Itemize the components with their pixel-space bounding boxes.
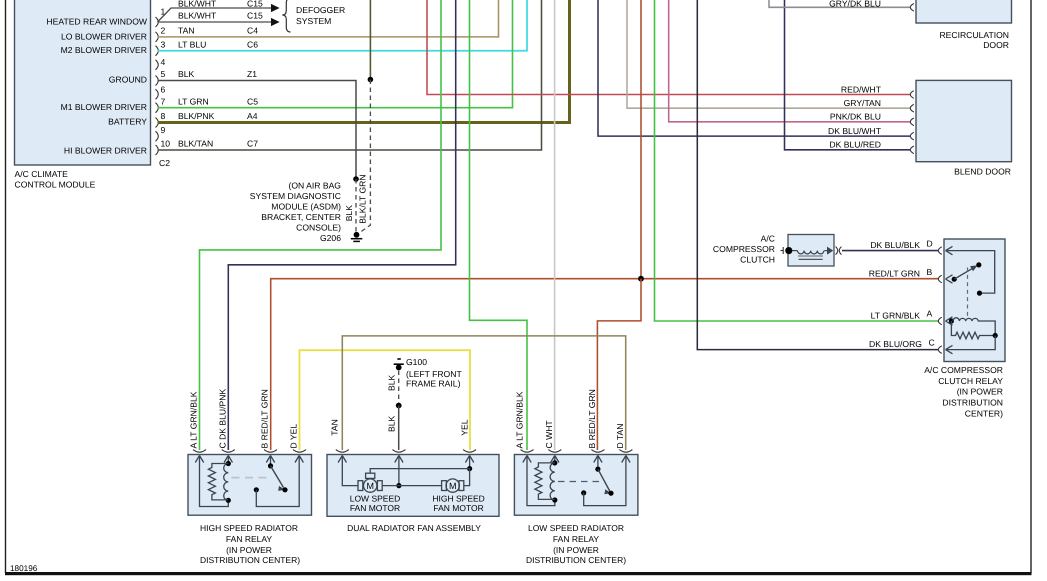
svg-text:LOW SPEED RADIATOR: LOW SPEED RADIATOR	[528, 523, 624, 533]
high speed radiator fan relay box	[188, 455, 312, 516]
svg-text:SYSTEM DIAGNOSTIC: SYSTEM DIAGNOSTIC	[250, 191, 341, 201]
svg-text:D TAN: D TAN	[615, 424, 625, 449]
svg-text:CLUTCH RELAY: CLUTCH RELAY	[938, 376, 1003, 386]
svg-text:A4: A4	[247, 111, 258, 121]
G206 location label	[250, 181, 342, 243]
svg-text:M1 BLOWER DRIVER: M1 BLOWER DRIVER	[61, 102, 147, 112]
low relay actuator dashed	[558, 481, 599, 483]
svg-text:BLK: BLK	[386, 415, 396, 432]
svg-text:BLK: BLK	[344, 205, 354, 222]
relay actuator dashed link	[967, 268, 969, 319]
rotated pin labels low speed relay	[514, 389, 625, 448]
svg-text:8: 8	[161, 111, 166, 121]
A/C compressor clutch label	[713, 233, 775, 264]
high relay switch blade	[271, 466, 284, 488]
high relay pin arrows	[195, 456, 303, 463]
svg-text:GRY/DK BLU: GRY/DK BLU	[829, 0, 881, 8]
low relay switch blade	[598, 469, 610, 491]
switch blade tip dot	[976, 262, 981, 267]
svg-text:M2 BLOWER DRIVER: M2 BLOWER DRIVER	[61, 45, 147, 55]
wire LT GRN C5 (pin7, up offscreen)	[158, 0, 513, 108]
junction dot RED/LT GRN	[638, 276, 644, 282]
rotated pin labels high speed relay	[189, 389, 299, 449]
low relay pin arrows	[523, 456, 630, 463]
svg-text:BLK/PNK: BLK/PNK	[178, 111, 215, 121]
recirc pin arc	[910, 4, 914, 12]
wire DK BLU/RED (to blend door)	[785, 0, 911, 150]
svg-text:TAN: TAN	[329, 419, 339, 436]
dual fan pin arrows	[338, 456, 474, 463]
svg-text:DK BLU/ORG: DK BLU/ORG	[869, 339, 922, 349]
svg-text:HEATED REAR WINDOW: HEATED REAR WINDOW	[46, 17, 147, 27]
relay coil	[953, 318, 995, 336]
frame bottom bar	[5, 572, 1032, 575]
wire DK BLU/PNK to high speed relay C	[228, 0, 455, 450]
svg-text:B RED/LT GRN: B RED/LT GRN	[587, 389, 597, 448]
high relay caption	[200, 523, 300, 565]
svg-text:BLEND DOOR: BLEND DOOR	[954, 167, 1011, 177]
dual fan pin arcs	[336, 450, 476, 453]
svg-text:C DK BLU/PNK: C DK BLU/PNK	[217, 389, 227, 449]
wire BLK/WHT pin1 upper (to defogger)	[158, 8, 272, 22]
module pin arcs 1-10	[156, 17, 159, 155]
svg-text:BATTERY: BATTERY	[108, 117, 147, 127]
svg-text:2: 2	[161, 26, 166, 36]
low speed radiator fan relay box	[514, 455, 638, 516]
svg-text:C15: C15	[247, 11, 263, 21]
low relay fixed contact to pin D	[584, 456, 626, 506]
svg-text:C2: C2	[159, 158, 170, 168]
svg-text:FAN MOTOR: FAN MOTOR	[350, 503, 400, 513]
relay pin D arrow and wire to fixed contact	[946, 246, 995, 293]
low speed fan motor	[358, 473, 382, 492]
hidden BLK wire (dashed) from G100	[398, 371, 400, 406]
svg-text:CLUTCH: CLUTCH	[740, 254, 775, 264]
low relay coil top dot	[552, 460, 557, 465]
svg-text:(LEFT FRONT: (LEFT FRONT	[406, 369, 462, 379]
svg-text:C: C	[929, 337, 935, 347]
low relay pin arcs	[521, 450, 633, 453]
high speed fan motor	[442, 479, 464, 492]
resistor junction dot	[993, 333, 998, 338]
blade arrowhead	[278, 486, 285, 491]
svg-text:A LT GRN/BLK: A LT GRN/BLK	[514, 391, 524, 448]
hidden BLK/LT GRN wire (dashed) to G206	[359, 80, 371, 234]
pin B arrow	[946, 275, 953, 283]
svg-text:4: 4	[161, 57, 166, 67]
module caption	[15, 169, 96, 190]
wire PNK/DK BLU (to blend door)	[669, 0, 910, 122]
svg-text:3: 3	[161, 39, 166, 49]
low relay resistor (parallel)	[535, 463, 555, 500]
recirculation door box	[916, 0, 1012, 23]
wire TAN C4 (pin2, up offscreen)	[158, 0, 499, 37]
svg-text:BRACKET, CENTER: BRACKET, CENTER	[261, 212, 341, 222]
svg-text:DISTRIBUTION CENTER): DISTRIBUTION CENTER)	[526, 555, 626, 565]
svg-text:5: 5	[161, 69, 166, 79]
clutch coil	[785, 247, 828, 254]
svg-text:6: 6	[161, 85, 166, 95]
svg-text:MODULE (ASDM): MODULE (ASDM)	[271, 202, 341, 212]
svg-text:TAN: TAN	[178, 26, 195, 36]
frame left border	[5, 0, 7, 573]
svg-text:180196: 180196	[10, 564, 38, 573]
svg-text:G206: G206	[320, 233, 341, 243]
svg-text:DOOR: DOOR	[983, 40, 1009, 50]
high relay switch pivot stem	[270, 456, 272, 466]
svg-text:GROUND: GROUND	[109, 75, 147, 85]
junction dot ASDM	[368, 77, 374, 83]
defogger system label	[296, 5, 345, 26]
svg-text:7: 7	[161, 96, 166, 106]
svg-text:A/C COMPRESSOR: A/C COMPRESSOR	[924, 365, 1003, 375]
svg-text:BLK/LT GRN: BLK/LT GRN	[357, 174, 367, 223]
wire WHT to low speed relay C	[554, 0, 556, 450]
wire GRY/TAN (to blend door)	[627, 0, 910, 108]
svg-text:DISTRIBUTION: DISTRIBUTION	[942, 398, 1003, 408]
high relay fixed contact to pin D	[256, 456, 299, 507]
YEL junction dot	[467, 466, 472, 471]
svg-text:D: D	[927, 238, 933, 248]
svg-text:BLK: BLK	[178, 69, 195, 79]
BLK junction dot	[396, 483, 401, 488]
svg-text:B: B	[927, 267, 933, 277]
svg-text:BLK/WHT: BLK/WHT	[178, 11, 217, 21]
wire DK GRN from top to ASDM junction	[369, 0, 371, 80]
svg-text:FAN RELAY: FAN RELAY	[226, 534, 272, 544]
wire BLK/TAN C7 (pin10, up offscreen)	[158, 0, 542, 150]
A/C compressor clutch relay box	[944, 239, 1005, 362]
svg-text:(IN POWER: (IN POWER	[226, 545, 272, 555]
junction dot G100 wire	[396, 403, 402, 409]
svg-text:LT BLU: LT BLU	[178, 39, 206, 49]
wire LT BLU C6 (pin3, up offscreen)	[158, 0, 528, 51]
frame right border	[1030, 0, 1032, 573]
svg-text:PNK/DK BLU: PNK/DK BLU	[830, 112, 881, 122]
svg-text:A: A	[927, 309, 933, 319]
svg-text:DUAL RADIATOR FAN ASSEMBLY: DUAL RADIATOR FAN ASSEMBLY	[347, 523, 481, 533]
relay resistor	[951, 321, 995, 339]
svg-text:CENTER): CENTER)	[965, 409, 1003, 419]
junction dot on BLK at G206 drop	[353, 176, 359, 182]
wire BLK to dual fan assembly	[398, 406, 400, 451]
high relay fixed contact dot	[254, 487, 259, 492]
svg-text:BLK/TAN: BLK/TAN	[178, 139, 213, 149]
clutch core bars	[798, 255, 823, 257]
svg-text:LT GRN/BLK: LT GRN/BLK	[871, 310, 921, 320]
high relay pin C stem	[227, 456, 229, 464]
pin A arrow	[946, 317, 953, 325]
wire LT GRN/BLK to clutch relay A	[655, 0, 939, 321]
svg-text:(ON AIR BAG: (ON AIR BAG	[288, 181, 341, 191]
pin A junction dot	[949, 318, 954, 323]
svg-text:FAN RELAY: FAN RELAY	[553, 534, 599, 544]
switch pivot dot B	[952, 277, 957, 282]
pin C arrow	[946, 345, 953, 353]
clutch relay pin letters	[927, 238, 935, 347]
svg-text:HI BLOWER DRIVER: HI BLOWER DRIVER	[64, 146, 147, 156]
hidden BLK wire (dashed) to G206	[355, 179, 357, 232]
wire to pin C inside relay	[946, 336, 996, 350]
low relay switch pivot dot	[595, 467, 600, 472]
wire BLK/WHT pin1 lower (to defogger)	[158, 21, 272, 23]
svg-text:CONSOLE): CONSOLE)	[296, 223, 341, 233]
svg-text:BLK/WHT: BLK/WHT	[178, 0, 217, 9]
switch blade	[954, 266, 976, 279]
svg-text:DK BLU/WHT: DK BLU/WHT	[828, 126, 882, 136]
svg-text:LT GRN: LT GRN	[178, 96, 209, 106]
high relay resistor (parallel)	[208, 464, 228, 500]
fixed contact dot (to D)	[977, 291, 982, 296]
svg-text:10: 10	[161, 139, 171, 149]
low relay pin C stem	[554, 456, 556, 463]
wire RED/LT GRN riser from top	[640, 0, 642, 279]
high relay coil bottom dot	[226, 498, 231, 503]
blend door pin arcs	[910, 91, 914, 154]
svg-text:M: M	[366, 481, 374, 491]
svg-text:DK BLU/RED: DK BLU/RED	[829, 140, 881, 150]
blend door wire labels	[828, 84, 882, 149]
wire YEL (high relay D to dual fan)	[300, 350, 471, 450]
svg-text:DEFOGGER: DEFOGGER	[296, 5, 345, 15]
wire GRY/DK BLU (to recirculation door)	[769, 0, 910, 7]
svg-text:DK BLU/BLK: DK BLU/BLK	[870, 240, 920, 250]
low relay coil	[550, 463, 555, 500]
motor labels	[350, 494, 485, 514]
wire LT GRN/BLK to high speed relay A	[200, 0, 442, 450]
wire TAN (dual fan to low relay D)	[342, 336, 625, 450]
svg-text:RED/WHT: RED/WHT	[841, 84, 882, 94]
A/C compressor clutch box	[788, 235, 834, 267]
clutch relay caption	[924, 365, 1003, 419]
arrow to defogger upper	[271, 4, 280, 12]
wire BLK/PNK A4 battery (pin8, up offscreen)	[158, 0, 570, 123]
svg-text:C6: C6	[247, 39, 258, 49]
svg-text:CONTROL MODULE: CONTROL MODULE	[15, 179, 96, 189]
ground G206	[351, 232, 363, 241]
wire DK BLU/BLK (clutch to relay D)	[842, 250, 939, 252]
svg-text:DISTRIBUTION CENTER): DISTRIBUTION CENTER)	[200, 555, 300, 565]
svg-text:A/C CLIMATE: A/C CLIMATE	[15, 169, 69, 179]
svg-text:M: M	[449, 481, 457, 491]
svg-text:HIGH SPEED RADIATOR: HIGH SPEED RADIATOR	[200, 523, 298, 533]
high relay coil top dot	[226, 461, 231, 466]
BLK pin wire	[398, 456, 400, 486]
svg-text:FRAME RAIL): FRAME RAIL)	[406, 379, 461, 389]
wire DK BLU/ORG to clutch relay C	[697, 0, 938, 350]
svg-text:COMPRESSOR: COMPRESSOR	[713, 244, 775, 254]
svg-text:C7: C7	[247, 139, 258, 149]
high relay pin arcs	[193, 450, 306, 453]
module circuit codes	[247, 0, 263, 149]
G100 label	[406, 357, 462, 388]
wire BLK Z1 (pin5 ground to G206)	[158, 81, 357, 180]
svg-text:(IN POWER: (IN POWER	[957, 387, 1003, 397]
low blade tip dot	[608, 491, 613, 496]
svg-text:RECIRCULATION: RECIRCULATION	[939, 30, 1009, 40]
low relay switch pivot stem	[597, 456, 599, 470]
low relay pin A path to coil bottom	[527, 456, 555, 506]
svg-text:C4: C4	[247, 26, 258, 36]
defogger brace	[282, 0, 290, 32]
module pin name labels	[46, 17, 147, 156]
svg-text:9: 9	[161, 125, 166, 135]
low relay coil bottom dot	[552, 497, 557, 502]
arrow to defogger lower	[271, 18, 280, 26]
high relay coil	[224, 464, 229, 501]
high relay pin A path to coil bottom	[200, 456, 229, 507]
clutch coil arrow	[827, 247, 833, 255]
wire RED/LT GRN net (clutch relay B to both fan relays)	[271, 279, 939, 450]
svg-text:GRY/TAN: GRY/TAN	[844, 98, 881, 108]
low relay caption	[526, 523, 626, 565]
low relay fixed contact dot	[581, 490, 586, 495]
blend door box	[916, 80, 1012, 161]
dual radiator fan assembly box	[327, 455, 499, 517]
module pin numbers	[161, 7, 171, 149]
ground G100	[394, 359, 404, 370]
svg-text:C15: C15	[247, 0, 263, 9]
YEL branch to high motor	[464, 469, 470, 486]
svg-text:YEL: YEL	[459, 419, 469, 435]
svg-text:HIGH SPEED: HIGH SPEED	[432, 494, 484, 504]
svg-text:(IN POWER: (IN POWER	[553, 545, 599, 555]
top feed to low motor	[370, 469, 469, 474]
svg-text:SYSTEM: SYSTEM	[296, 16, 331, 26]
low blade arrowhead	[604, 489, 611, 494]
blade tip dot	[282, 487, 287, 492]
wire RED/WHT (to blend door)	[427, 0, 910, 95]
svg-text:B RED/LT GRN: B RED/LT GRN	[260, 389, 270, 448]
recirculation door caption	[939, 30, 1009, 50]
rotated pin labels dual fan	[329, 419, 469, 436]
svg-text:RED/LT GRN: RED/LT GRN	[869, 269, 920, 279]
clutch relay wire labels	[869, 240, 923, 349]
wire DK BLU/WHT (to blend door)	[598, 0, 910, 136]
svg-text:BLK: BLK	[386, 374, 396, 391]
svg-text:A/C: A/C	[761, 233, 775, 243]
module wire name labels	[178, 0, 217, 149]
A/C climate control module box	[15, 0, 151, 165]
TAN pin wire to low speed motor	[342, 456, 358, 486]
wire RED/LT GRN branch to low speed relay B	[597, 279, 641, 450]
YEL pin wire	[469, 456, 471, 469]
svg-text:LOW SPEED: LOW SPEED	[350, 494, 401, 504]
svg-text:LO BLOWER DRIVER: LO BLOWER DRIVER	[61, 32, 147, 42]
svg-text:Z1: Z1	[247, 69, 257, 79]
svg-text:C WHT: C WHT	[544, 420, 554, 449]
clutch one-pin connector	[781, 247, 784, 254]
motor bus low to high	[383, 485, 442, 487]
svg-text:D YEL: D YEL	[289, 424, 299, 449]
wire LT GRN/BLK to low speed relay A	[470, 0, 528, 450]
clutch right connector halves	[836, 247, 842, 255]
high relay actuator dashed	[232, 477, 273, 479]
high relay switch pivot dot	[268, 463, 273, 468]
svg-text:FAN MOTOR: FAN MOTOR	[433, 503, 483, 513]
svg-text:C5: C5	[247, 96, 258, 106]
clutch relay pin arcs	[938, 247, 942, 354]
svg-text:A LT GRN/BLK: A LT GRN/BLK	[189, 391, 199, 448]
svg-text:G100: G100	[406, 357, 427, 367]
